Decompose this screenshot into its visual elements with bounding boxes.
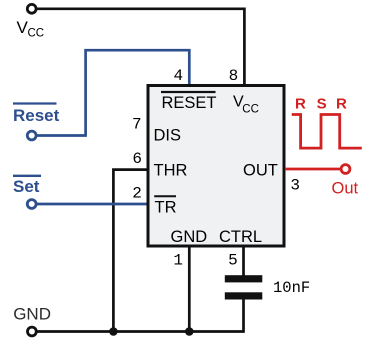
svg-text:6: 6	[132, 150, 142, 168]
svg-text:10nF: 10nF	[273, 279, 310, 297]
terminal Out	[341, 165, 350, 174]
capacitor C1 plates	[225, 275, 262, 299]
label Set (active low)	[13, 176, 41, 196]
terminal GND	[28, 327, 37, 336]
svg-text:Reset: Reset	[13, 106, 60, 125]
wire OUT pin 3 to Out terminal	[285, 168, 341, 171]
waveform output R-S-R	[292, 115, 362, 149]
label VCC	[17, 18, 45, 40]
wire CTRL pin 5 to capacitor	[242, 246, 245, 276]
svg-text:RESET: RESET	[162, 94, 217, 112]
svg-text:2: 2	[132, 184, 142, 202]
svg-text:OUT: OUT	[243, 162, 278, 180]
junction pin1/rail	[185, 327, 194, 336]
label Reset (active low)	[13, 104, 60, 126]
terminal VCC	[27, 4, 36, 13]
svg-text:R: R	[336, 96, 347, 113]
svg-text:7: 7	[132, 116, 142, 134]
svg-text:Out: Out	[332, 180, 359, 198]
svg-text:3: 3	[290, 177, 300, 195]
svg-text:TR: TR	[155, 199, 177, 217]
svg-text:DIS: DIS	[154, 127, 182, 145]
svg-text:4: 4	[174, 67, 184, 85]
svg-text:8: 8	[229, 67, 239, 85]
terminal Set	[27, 200, 36, 209]
wire GND pin 1 to ground rail	[188, 246, 191, 332]
svg-text:Set: Set	[13, 177, 40, 196]
pin label VCC (pin 8)	[233, 94, 259, 116]
svg-text:GND: GND	[171, 228, 208, 246]
wire Set to pin 2	[36, 203, 148, 206]
svg-text:S: S	[317, 96, 327, 113]
op-amp U1 (555 timer body)	[148, 86, 284, 247]
wire THR (pin 6) to ground rail	[113, 170, 148, 332]
svg-text:THR: THR	[154, 162, 188, 180]
pin label RESET (pin 4)	[161, 92, 217, 112]
svg-text:GND: GND	[13, 305, 51, 324]
junction THR/rail	[109, 327, 118, 336]
svg-text:CC: CC	[28, 28, 45, 40]
wire Reset to pin 4	[36, 50, 189, 135]
pin label TR (pin 2, active low)	[154, 196, 176, 216]
svg-text:CTRL: CTRL	[219, 228, 262, 246]
terminal Reset	[27, 131, 36, 140]
wire VCC supply to pin 8	[36, 9, 244, 85]
ground rail	[36, 295, 244, 332]
svg-text:1: 1	[173, 252, 183, 270]
svg-text:R: R	[295, 96, 306, 113]
svg-text:5: 5	[228, 252, 238, 270]
svg-text:CC: CC	[242, 104, 259, 116]
